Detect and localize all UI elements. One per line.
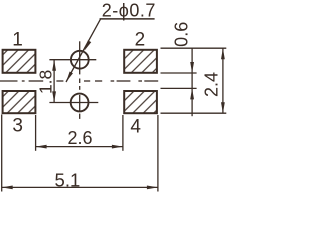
hole circle top <box>71 51 89 69</box>
arrow 0.6 upper (down) <box>190 62 194 73</box>
arrow 2.6 left <box>36 145 47 149</box>
svg-text:3: 3 <box>12 116 23 137</box>
svg-text:4: 4 <box>130 116 141 137</box>
hole circle bottom <box>71 94 89 112</box>
extension line right of pad2 top edge <box>161 47 227 49</box>
extension line below pad4 right edge <box>157 115 159 192</box>
vertical centerline through holes (dash-dot) <box>79 41 81 119</box>
arrow 2.4 top <box>221 48 225 59</box>
pad 2 (hatched rectangle) <box>124 50 157 73</box>
leader underline <box>100 18 155 20</box>
svg-text:1.8: 1.8 <box>35 70 55 94</box>
extension line right of pad4 bottom edge <box>161 112 227 114</box>
arrow 5.1 left <box>2 186 13 190</box>
extension line below pad4 left edge <box>122 115 124 151</box>
dimension 2.4 line <box>222 48 224 113</box>
extension line below pad3 right edge <box>35 115 37 151</box>
arrow 2.6 right <box>112 145 123 149</box>
svg-text:0.6: 0.6 <box>171 22 191 47</box>
arrow 0.6 lower (up) <box>190 88 194 99</box>
svg-text:5.1: 5.1 <box>55 170 81 191</box>
dimension 0.6 line <box>191 48 193 116</box>
extension line right of pad2 bottom edge <box>161 72 197 74</box>
pad 4 (hatched rectangle) <box>124 91 157 113</box>
extension line right of pad4 top edge <box>161 87 197 89</box>
svg-text:2: 2 <box>135 30 146 51</box>
arrow 1.8 bottom <box>52 91 56 102</box>
dimension 2.6 line <box>36 146 123 148</box>
arrow 2.4 bottom <box>221 102 225 113</box>
leader arrowhead at hole edge <box>84 40 91 51</box>
leader arrowhead at centerline <box>66 71 73 82</box>
arrow 5.1 right <box>147 186 158 190</box>
arrow 1.8 top <box>52 60 56 71</box>
leader line for 2-phi0.7 <box>66 19 101 82</box>
extension line below pad3 left edge <box>1 115 3 192</box>
horizontal centerline (dash-dot) <box>0 80 158 82</box>
crosshair of top hole (horizontal, also 1.8 extension) <box>49 59 96 61</box>
pad 1 (hatched rectangle) <box>3 50 36 73</box>
pad 3 (hatched rectangle) <box>3 91 36 113</box>
crosshair of bottom hole (horizontal, also 1.8 extension) <box>49 102 98 104</box>
svg-text:1: 1 <box>12 30 23 51</box>
svg-text:2.4: 2.4 <box>202 72 222 97</box>
svg-text:2-ϕ0.7: 2-ϕ0.7 <box>102 0 156 20</box>
dimension 5.1 line <box>2 186 158 188</box>
svg-text:2.6: 2.6 <box>67 128 92 148</box>
dimension 1.8 line <box>53 60 55 103</box>
